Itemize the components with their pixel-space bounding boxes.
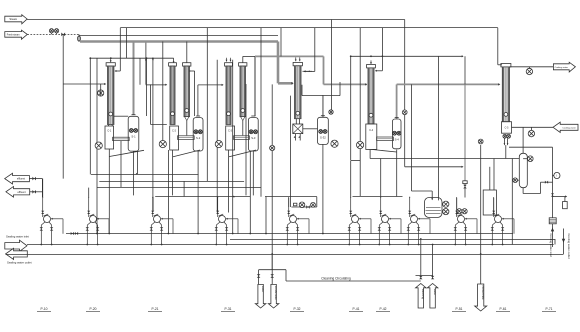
wire manifold y239	[230, 238, 555, 240]
column C-3b	[239, 63, 247, 117]
svg-text:P-32: P-32	[294, 307, 301, 311]
wire fresh steam solid y35.3	[79, 34, 278, 36]
wire feed to C-2 vessel	[150, 85, 152, 125]
wire CIP links	[441, 203, 444, 205]
wire steam header y19.5	[27, 19, 405, 21]
wire x266	[265, 197, 267, 234]
wire header y27.8	[120, 27, 498, 29]
wire risers cleaning	[420, 239, 422, 276]
duct drop x465	[464, 84, 466, 180]
wire U2 drain diagonal	[172, 150, 174, 157]
svg-text:P-42: P-42	[380, 307, 387, 311]
wire pump riser #4	[217, 197, 219, 198]
svg-text:C-2: C-2	[172, 130, 177, 133]
condenser bottom box	[502, 122, 512, 134]
wire x184.1	[183, 181, 185, 196]
pump bottom row #10	[491, 197, 514, 245]
wire pump riser #7	[380, 159, 382, 199]
wire y85.6 into C-3	[198, 84, 223, 86]
wire y147.2	[509, 146, 553, 148]
wire y95.6 U4	[302, 95, 340, 97]
svg-text:P-21: P-21	[152, 307, 159, 311]
feed arrow "Fresh steam" inlet	[5, 30, 28, 39]
wire x137.4	[136, 151, 138, 174]
instrument cluster mid	[291, 206, 316, 208]
vessel C-31 bottom	[293, 124, 303, 134]
valve clean 2	[431, 276, 434, 279]
wire cleaning line	[286, 280, 421, 282]
wire cooling in y127.3	[512, 126, 554, 128]
gauge cooling in	[528, 130, 534, 136]
wire HX-1 bottom drop	[120, 141, 122, 187]
wire steam header drop x404.7	[404, 20, 406, 167]
column C-4	[367, 60, 376, 123]
wire effluent 2	[30, 191, 43, 193]
wire x79 drop	[78, 34, 80, 41]
wire pump riser #5	[288, 198, 290, 207]
wire cleaning drop x272.7	[271, 254, 273, 270]
wire drop x314.8	[314, 28, 316, 72]
wire S-4 bottom drop	[396, 150, 398, 197]
instrument circle right	[554, 172, 560, 178]
wire header U1-U2 y58.2	[90, 57, 173, 59]
pump P-4i	[331, 140, 338, 147]
gauge U1	[98, 90, 104, 96]
wire tank feed	[489, 167, 491, 190]
gauge PI-1	[49, 29, 53, 33]
wire pump riser #2	[88, 188, 90, 198]
wire S-3 bottom drop	[252, 151, 254, 195]
wire col1 to S-1 vapor	[114, 115, 128, 117]
pump bottom row #1	[40, 197, 63, 245]
svg-text:S-1: S-1	[131, 135, 136, 139]
feed arrow "Steam" inlet	[5, 15, 27, 24]
wire manifold y244.5 sealing in	[27, 244, 554, 246]
wire x552.5 drop	[552, 147, 554, 218]
wire pump riser #8	[409, 197, 411, 198]
gauge stem U1	[100, 84, 102, 96]
wire fresh steam dashed	[27, 33, 79, 35]
svg-text:P-41: P-41	[353, 307, 360, 311]
wire drop x438	[438, 56, 440, 98]
wire manifold y233.5	[66, 233, 513, 235]
wire col4-vessel neck	[295, 119, 297, 124]
arrow into C-1	[104, 83, 106, 85]
outlet arrow sealing	[6, 248, 28, 259]
wire y196.4 mid segment	[265, 195, 317, 197]
svg-text:S-32: S-32	[320, 136, 326, 140]
outlet arrow "effluent" 2	[6, 186, 30, 197]
wire x153.1	[152, 197, 154, 212]
condenser gauges	[503, 134, 507, 138]
wire drop x281	[280, 28, 282, 57]
gauge stem	[528, 67, 530, 69]
wire vessel-separator U4	[303, 128, 318, 130]
wire x162.8 drop	[162, 42, 164, 142]
svg-text:S-2: S-2	[196, 136, 201, 140]
svg-text:C-4: C-4	[369, 129, 374, 132]
svg-text:S-3: S-3	[251, 136, 256, 140]
wire CIP feed elbow	[412, 190, 433, 192]
valve drain 2	[270, 274, 274, 278]
column C-2b	[183, 63, 191, 117]
svg-text:Sealing water outlet: Sealing water outlet	[7, 261, 32, 265]
separator S-3	[248, 116, 258, 151]
wire x290.6	[290, 96, 292, 207]
CIP tank	[425, 198, 443, 218]
pump bottom row #2	[86, 197, 109, 245]
wire pump riser #9	[456, 198, 458, 216]
wire x465 valve cluster	[463, 181, 467, 184]
duct drop x278	[277, 42, 280, 84]
svg-text:P-31: P-31	[225, 307, 232, 311]
wire y181.4	[99, 180, 244, 182]
wire x350 drop	[350, 56, 352, 160]
wire S-1 bottom drop	[133, 151, 135, 195]
pump P-2i	[159, 141, 166, 148]
CIP circles	[443, 201, 449, 207]
outlet arrow "effluent" 1	[5, 173, 30, 184]
wire condenser top out	[510, 66, 554, 68]
arrow into C-4	[365, 83, 367, 85]
wire x272.8 lower	[271, 84, 273, 269]
condenser stubs	[503, 138, 505, 145]
svg-text:concentrate: concentrate	[481, 286, 485, 301]
svg-text:S-4: S-4	[395, 137, 400, 141]
wire gauges link	[456, 210, 458, 212]
wire x152.9 drop	[152, 58, 154, 196]
wire y196.7	[155, 195, 250, 197]
separator S-1	[128, 115, 139, 151]
drain arrow 3	[475, 284, 487, 311]
svg-text:Sealing water inlet: Sealing water inlet	[6, 234, 29, 238]
svg-text:Cooling water: Cooling water	[555, 66, 569, 69]
valve drain 1	[257, 274, 261, 278]
wire steam into column C-1	[63, 83, 104, 85]
wire x482	[480, 145, 482, 254]
column C-31	[293, 57, 302, 118]
vessel V-6	[519, 153, 527, 187]
inlet arrow "Cooling water" left	[553, 122, 578, 132]
wire V-6 gauge links	[523, 158, 527, 160]
pump P-1i	[95, 142, 102, 149]
cooling water outlet line	[563, 229, 565, 255]
wire x140	[139, 58, 141, 84]
vessel C-2 bottom	[170, 126, 179, 150]
wire x512 drop	[511, 159, 513, 245]
valve effluent 2	[32, 190, 36, 194]
pump bottom row #9	[454, 197, 477, 245]
outlet arrow "Cooling water"	[553, 62, 575, 72]
wire x207.3	[206, 28, 208, 182]
wire effluent 1	[29, 178, 42, 180]
wire x232.7	[232, 60, 234, 234]
duct S-3 top riser	[254, 56, 256, 116]
pump P-5i	[357, 141, 364, 148]
duct branch x145.8	[145, 42, 147, 85]
duct into column C-4	[324, 83, 367, 85]
duct S-1 top riser	[133, 42, 135, 115]
wire drop x497.8 to condenser	[497, 28, 499, 65]
separator S-2	[193, 116, 203, 151]
vessel C-31 stubs	[295, 134, 297, 141]
wire x246	[245, 84, 247, 195]
wire trap out	[552, 224, 554, 247]
wire S-2 bottom drop	[197, 151, 199, 234]
svg-text:water: water	[261, 286, 265, 293]
wire col1-vessel neck	[108, 125, 110, 127]
wire V-6 top	[522, 127, 524, 153]
wire y174	[91, 173, 199, 175]
svg-text:water: water	[433, 289, 437, 296]
duct drop x323.5	[323, 56, 325, 84]
wire tank feed 2	[493, 159, 495, 191]
svg-text:effluent: effluent	[17, 178, 25, 181]
wire V-6 bottom hookup	[522, 188, 524, 194]
control valve on fresh steam	[61, 33, 65, 37]
pump P-3i	[215, 141, 222, 148]
svg-text:P-10: P-10	[41, 307, 48, 311]
pump bottom row #7	[378, 197, 401, 245]
pump bottom row #5	[286, 197, 309, 245]
wire x261	[260, 28, 262, 197]
svg-text:condensate: condensate	[274, 286, 278, 300]
vessel C-1 bottom	[105, 126, 114, 149]
condenser column C-5	[501, 64, 511, 122]
steam trap	[549, 218, 556, 224]
wire col2b top link	[186, 42, 188, 63]
wire pump riser #6	[350, 161, 352, 198]
hx E-1 plates	[113, 137, 130, 140]
wire header U5 y56.3	[351, 55, 463, 57]
column C-1	[106, 59, 115, 125]
stems of gauges	[51, 33, 53, 35]
duct y56.4 to x323.5	[255, 55, 324, 57]
svg-text:P-51: P-51	[456, 307, 463, 311]
svg-text:Cooling water outlet: Cooling water outlet	[567, 234, 571, 259]
cooling water inlet arrowhead	[551, 228, 554, 232]
wire pump riser #3	[152, 197, 154, 198]
wire valve pair y71.3	[303, 70, 313, 72]
gauge cooling out	[526, 68, 532, 74]
svg-text:Cooling water: Cooling water	[562, 126, 576, 129]
wire x250.3	[249, 151, 251, 234]
wire x97	[96, 58, 98, 233]
duct into column C-31	[278, 82, 293, 85]
wire x382 drop into C-4	[381, 28, 383, 71]
valve effluent 1	[32, 177, 36, 181]
svg-text:cleaning: cleaning	[421, 289, 425, 300]
svg-text:P-61: P-61	[500, 307, 507, 311]
funnel C-3b	[241, 117, 245, 121]
drain arrow 1	[255, 284, 266, 308]
wire U1 drain diagonal	[108, 149, 110, 157]
wire y187.6	[97, 186, 261, 188]
wire y196.7 right	[353, 195, 403, 197]
hx E-2 plates	[178, 136, 195, 140]
arrow into C-31	[291, 82, 293, 84]
hx E-3 plates	[234, 136, 250, 140]
vessel C-4 bottom	[366, 124, 377, 149]
wire U3 drain diagonal	[228, 150, 230, 157]
gauge V-6b	[513, 178, 518, 183]
duct main y41.5	[80, 40, 278, 43]
drain arrow 2	[268, 284, 279, 308]
wire S-32 bottom drop	[322, 144, 324, 233]
wire drop x331.5	[331, 20, 333, 110]
wire S-2 top	[197, 85, 199, 116]
wire pump riser #10	[493, 198, 495, 215]
wire drop x120	[119, 28, 121, 71]
wire drop x126.5	[126, 28, 128, 58]
valve clean 1	[419, 276, 422, 279]
svg-text:C-1: C-1	[107, 130, 112, 133]
svg-text:Cooling water inlet: Cooling water inlet	[549, 234, 553, 258]
junction dots manifolds	[96, 233, 98, 235]
gauge x404 riser	[402, 110, 407, 115]
gauges x470 pair	[457, 209, 462, 214]
svg-text:Cleaning Circulating: Cleaning Circulating	[321, 276, 351, 280]
inlet arrow sealing	[5, 240, 27, 251]
wire drop x411.5	[411, 84, 413, 191]
wire drop x360	[359, 28, 361, 142]
small arrow right mid	[553, 196, 567, 198]
duct into column C-2a	[146, 84, 167, 86]
wire condenser to y158.5	[505, 145, 507, 158]
separator S-32	[318, 116, 329, 145]
wire x168.4	[167, 150, 169, 234]
svg-text:P-20: P-20	[90, 307, 97, 311]
column C-2a	[169, 63, 177, 125]
gauge stem 2	[530, 127, 532, 130]
gauge on riser x272	[270, 145, 275, 150]
wire x465 upper	[464, 56, 466, 84]
wire manifold y254 sealing out	[6, 253, 564, 255]
pump bottom row #6	[348, 197, 371, 245]
vessel C-3 bottom	[226, 126, 235, 150]
wire x217	[216, 60, 218, 213]
gauge V-6a	[528, 156, 534, 162]
wire drain3 riser	[480, 254, 482, 284]
svg-text:P-71: P-71	[546, 307, 553, 311]
hx E-4 plates	[377, 137, 394, 141]
wire col3b top link	[242, 56, 244, 62]
valve on x552.5	[551, 193, 554, 196]
wire x194.6	[194, 71, 196, 116]
pump bottom row #3	[150, 197, 173, 245]
gauge U4	[329, 110, 333, 114]
wire branch x63 down	[62, 34, 64, 178]
small box right	[563, 202, 568, 209]
arrow duct into condenser	[498, 83, 500, 85]
column C-3a	[225, 58, 233, 125]
separator S-4	[392, 117, 401, 148]
wire y166.8	[405, 166, 463, 168]
wire U5 vessel drop	[369, 149, 371, 158]
clean arrow up 1	[416, 284, 427, 309]
wire cleaning header	[259, 269, 286, 271]
expansion joint	[78, 36, 81, 41]
wire U5 drain diagonal	[371, 149, 397, 152]
svg-text:Fresh steam: Fresh steam	[7, 34, 20, 37]
wire y158.5	[370, 158, 519, 160]
gauge PI-2	[55, 29, 59, 33]
pump bottom row #4	[215, 197, 238, 245]
svg-text:Steam: Steam	[9, 17, 18, 21]
svg-text:C-3: C-3	[228, 130, 233, 133]
arrow into C-2a	[165, 84, 167, 86]
clean arrow up 2	[427, 284, 438, 309]
valves on manifold y233.5	[71, 232, 74, 235]
funnel C-2b	[185, 117, 189, 121]
wire S-32 top	[322, 95, 324, 117]
tank T-2	[483, 190, 496, 215]
duct S-4 top	[396, 84, 398, 118]
pump bottom row #8	[407, 197, 430, 245]
wire S-32 top	[322, 96, 324, 117]
svg-text:effluent: effluent	[18, 191, 26, 194]
gauge x482	[478, 139, 483, 144]
wire pump riser #1	[42, 179, 44, 198]
